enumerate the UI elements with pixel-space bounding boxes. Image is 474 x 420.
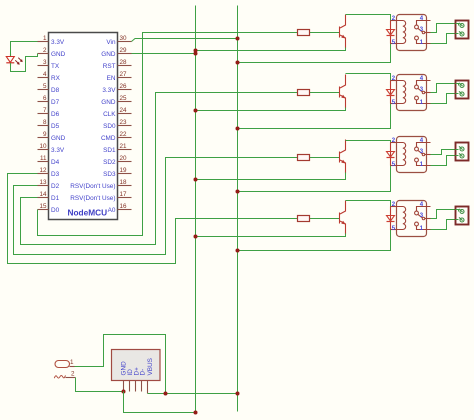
NodeMCU pin 13 (D2) bbox=[38, 179, 60, 190]
svg-text:18: 18 bbox=[120, 179, 128, 186]
USB plug P1 body bbox=[54, 359, 75, 378]
svg-text:D4: D4 bbox=[51, 159, 60, 166]
NodeMCU pin 16 (A0) bbox=[108, 203, 132, 214]
NodeMCU pin 14 (D1) bbox=[38, 191, 60, 202]
svg-text:D6: D6 bbox=[51, 111, 60, 118]
svg-text:6: 6 bbox=[43, 95, 47, 102]
wire P1 pin1 loop to VBUS net bbox=[75, 335, 166, 394]
resistor R2 bbox=[298, 90, 340, 96]
NodeMCU pin 22 (CMD) bbox=[101, 131, 132, 142]
NodeMCU pin 6 (D7) bbox=[38, 95, 60, 106]
NodeMCU pin 5 (D8) bbox=[38, 83, 60, 94]
wire emitter Q2 to GND bus bbox=[196, 108, 346, 111]
transistor Q1 bbox=[340, 15, 346, 49]
NodeMCU pin 7 (D6) bbox=[38, 107, 60, 118]
USB pin D+ bbox=[135, 381, 137, 392]
wire USB VBUS to bus B bbox=[148, 393, 238, 395]
wire relay4 coil- to V+ bus bbox=[238, 230, 391, 251]
wire P1 pin2 to GND net bbox=[76, 378, 124, 392]
wire relay2 pin3 to terminal bbox=[431, 84, 456, 93]
svg-text:17: 17 bbox=[120, 191, 128, 198]
NodeMCU pin 24 (CLK) bbox=[103, 107, 131, 118]
LED D5 bbox=[6, 54, 22, 66]
svg-text:Vin: Vin bbox=[106, 39, 116, 46]
svg-text:3.3V: 3.3V bbox=[102, 87, 116, 94]
svg-text:D5: D5 bbox=[51, 123, 60, 130]
wire relay3 coil- to V+ bus bbox=[238, 166, 391, 192]
screw terminal J1 bbox=[456, 21, 469, 39]
screw terminal J4 bbox=[456, 207, 469, 225]
svg-text:RST: RST bbox=[103, 63, 116, 70]
NodeMCU pin 25 (GND) bbox=[101, 95, 131, 106]
USB pin ID bbox=[129, 381, 131, 392]
USB pin VBUS bbox=[147, 381, 149, 394]
svg-text:16: 16 bbox=[120, 203, 128, 210]
NodeMCU pin 18 (RSV(Don&#39;t Use)) bbox=[70, 179, 131, 190]
wire D3 pin12 to row4 base bbox=[8, 174, 298, 264]
svg-text:4: 4 bbox=[43, 71, 47, 78]
NodeMCU pin 11 (D4) bbox=[38, 155, 60, 166]
svg-text:SD2: SD2 bbox=[103, 159, 116, 166]
junction pin29 busA bbox=[194, 52, 198, 56]
svg-text:VBUS: VBUS bbox=[147, 358, 154, 375]
junction emitter row 1 bbox=[194, 49, 198, 53]
diode D4 flyback bbox=[387, 207, 395, 230]
NodeMCU pin 28 (RST) bbox=[103, 59, 132, 70]
relay K1 bbox=[391, 15, 431, 51]
svg-text:19: 19 bbox=[120, 167, 128, 174]
svg-text:SD0: SD0 bbox=[103, 123, 116, 130]
svg-text:28: 28 bbox=[120, 59, 128, 66]
wire USB GND down to bus A bbox=[124, 392, 196, 413]
svg-text:3.3V: 3.3V bbox=[51, 147, 65, 154]
transistor Q4 bbox=[340, 201, 346, 235]
svg-text:CLK: CLK bbox=[103, 111, 116, 118]
NodeMCU pin 23 (SD0) bbox=[103, 119, 131, 130]
svg-text:GND: GND bbox=[51, 135, 66, 142]
svg-text:CMD: CMD bbox=[101, 135, 116, 142]
svg-text:RSV(Don't Use): RSV(Don't Use) bbox=[70, 183, 115, 190]
svg-text:7: 7 bbox=[43, 107, 47, 114]
NodeMCU pin 29 (GND) bbox=[101, 47, 131, 58]
NodeMCU pin 27 (EN) bbox=[107, 71, 132, 82]
svg-text:GND: GND bbox=[101, 51, 116, 58]
svg-text:GND: GND bbox=[51, 51, 66, 58]
NodeMCU pin 2 (GND) bbox=[38, 47, 66, 58]
NodeMCU pin 9 (GND) bbox=[38, 131, 66, 142]
wire relay3 pin3 to terminal bbox=[431, 150, 456, 155]
wire collector Q4 to relay coil bbox=[346, 201, 391, 207]
svg-text:12: 12 bbox=[39, 167, 47, 174]
NodeMCU pin 26 (3.3V) bbox=[102, 83, 131, 94]
wire relay1 coil- to V+ bus bbox=[238, 44, 391, 63]
svg-text:11: 11 bbox=[40, 155, 47, 162]
relay K3 bbox=[391, 137, 431, 173]
resistor R1 bbox=[298, 30, 340, 36]
screw terminal J2 bbox=[456, 81, 469, 99]
svg-text:D3: D3 bbox=[51, 171, 60, 178]
wire pin30 Vin to bus B bbox=[132, 39, 238, 42]
NodeMCU pin 19 (SD3) bbox=[103, 167, 131, 178]
USB pin GND bbox=[123, 381, 125, 392]
NodeMCU pin 1 (3.3V) bbox=[38, 35, 65, 46]
wire collector Q1 to relay coil bbox=[346, 15, 391, 21]
NodeMCU pin 21 (SD1) bbox=[103, 143, 131, 154]
svg-text:NodeMCU: NodeMCU bbox=[68, 208, 108, 218]
bus A GND vertical bbox=[195, 6, 197, 413]
NodeMCU pin 8 (D5) bbox=[38, 119, 60, 130]
junction P1 loop VBUS wire bbox=[164, 392, 168, 396]
wire relay1 pin3 to terminal bbox=[431, 24, 456, 33]
screw terminal J3 bbox=[456, 143, 469, 161]
wire relay2 coil- to V+ bus bbox=[238, 104, 391, 129]
USB pin D- bbox=[141, 381, 143, 392]
svg-text:14: 14 bbox=[39, 191, 47, 198]
junction emitter row 4 bbox=[194, 235, 198, 239]
svg-text:27: 27 bbox=[120, 71, 128, 78]
svg-text:22: 22 bbox=[120, 131, 128, 138]
wire LED cathode to pin2 GND bbox=[11, 54, 38, 72]
wire emitter Q1 to GND bus bbox=[196, 48, 346, 51]
svg-text:3.3V: 3.3V bbox=[51, 39, 65, 46]
junction VBUS busB bbox=[236, 392, 240, 396]
NodeMCU pin 17 (RSV(Don&#39;t Use)) bbox=[70, 191, 131, 202]
wire collector Q3 to relay coil bbox=[346, 141, 391, 143]
svg-text:D2: D2 bbox=[51, 183, 60, 190]
NodeMCU pin 10 (3.3V) bbox=[38, 143, 65, 154]
wire D0 pin15 to row1 base bbox=[38, 33, 298, 236]
svg-text:8: 8 bbox=[43, 119, 47, 126]
svg-text:5: 5 bbox=[43, 83, 47, 90]
svg-text:RX: RX bbox=[51, 75, 61, 82]
wire relay1 pin1 to terminal bbox=[431, 34, 456, 44]
svg-text:15: 15 bbox=[39, 203, 47, 210]
relay K4 bbox=[391, 201, 431, 237]
svg-text:A0: A0 bbox=[108, 207, 116, 214]
wire relay2 pin1 to terminal bbox=[431, 94, 456, 104]
wire relay4 pin1 to terminal bbox=[431, 220, 456, 230]
svg-text:RSV(Don't Use): RSV(Don't Use) bbox=[70, 195, 115, 202]
svg-text:D-: D- bbox=[140, 369, 147, 376]
junction coil row 4 bbox=[236, 249, 240, 253]
wire D2 pin13 to row3 base bbox=[14, 158, 298, 255]
junction emitter row 2 bbox=[194, 109, 198, 113]
NodeMCU pin 3 (TX) bbox=[38, 59, 60, 70]
svg-text:2: 2 bbox=[43, 47, 47, 54]
NodeMCU U1 body bbox=[49, 33, 118, 220]
junction bus A bottom bbox=[194, 411, 198, 415]
resistor R3 bbox=[298, 155, 340, 161]
wire pin29 GND to bus A bbox=[132, 53, 196, 55]
svg-text:24: 24 bbox=[120, 107, 128, 114]
svg-text:13: 13 bbox=[39, 179, 47, 186]
wire emitter Q4 to GND bus bbox=[196, 234, 346, 237]
NodeMCU pin 20 (SD2) bbox=[103, 155, 131, 166]
wire relay4 pin3 to terminal bbox=[431, 210, 456, 219]
svg-text:21: 21 bbox=[120, 143, 128, 150]
svg-text:3: 3 bbox=[43, 59, 47, 66]
wire D1 pin14 to row2 base bbox=[21, 93, 298, 245]
svg-text:TX: TX bbox=[51, 63, 60, 70]
svg-text:29: 29 bbox=[120, 47, 128, 54]
svg-text:2: 2 bbox=[71, 371, 75, 378]
resistor R4 bbox=[298, 216, 340, 222]
diode D2 flyback bbox=[387, 81, 395, 104]
svg-text:1: 1 bbox=[43, 35, 47, 42]
NodeMCU pin 30 (Vin) bbox=[106, 35, 131, 46]
junction coil row 1 bbox=[236, 61, 240, 65]
svg-text:10: 10 bbox=[39, 143, 47, 150]
svg-text:25: 25 bbox=[120, 95, 128, 102]
wire LED anode to pin1 3.3V bbox=[11, 42, 38, 57]
svg-text:23: 23 bbox=[120, 119, 128, 126]
svg-text:30: 30 bbox=[120, 35, 128, 42]
junction USB GND pin bbox=[122, 390, 126, 394]
svg-text:26: 26 bbox=[120, 83, 128, 90]
transistor Q3 bbox=[340, 140, 346, 174]
junction emitter row 3 bbox=[194, 178, 198, 182]
junction coil row 2 bbox=[236, 127, 240, 131]
bus B V+ vertical bbox=[237, 6, 239, 412]
wire relay3 pin1 to terminal bbox=[431, 156, 456, 166]
svg-text:D8: D8 bbox=[51, 87, 60, 94]
diode D3 flyback bbox=[387, 143, 395, 166]
svg-text:D0: D0 bbox=[51, 207, 60, 214]
NodeMCU pin 4 (RX) bbox=[38, 71, 61, 82]
diode D1 flyback bbox=[387, 21, 395, 44]
junction coil row 3 bbox=[236, 190, 240, 194]
svg-text:D7: D7 bbox=[51, 99, 60, 106]
wire collector Q2 to relay coil bbox=[346, 74, 391, 81]
svg-text:EN: EN bbox=[107, 75, 116, 82]
svg-text:SD1: SD1 bbox=[103, 147, 116, 154]
svg-text:GND: GND bbox=[101, 99, 116, 106]
svg-text:20: 20 bbox=[120, 155, 128, 162]
svg-text:D1: D1 bbox=[51, 195, 60, 202]
NodeMCU pin 15 (D0) bbox=[38, 203, 60, 214]
USB connector J5 body bbox=[112, 350, 161, 381]
transistor Q2 bbox=[340, 75, 346, 109]
relay K2 bbox=[391, 75, 431, 111]
svg-text:SD3: SD3 bbox=[103, 171, 116, 178]
wire emitter Q3 to GND bus bbox=[196, 173, 346, 180]
junction pin30 busB bbox=[236, 37, 240, 41]
NodeMCU pin 12 (D3) bbox=[38, 167, 60, 178]
svg-text:1: 1 bbox=[70, 359, 74, 366]
svg-text:9: 9 bbox=[43, 131, 47, 138]
